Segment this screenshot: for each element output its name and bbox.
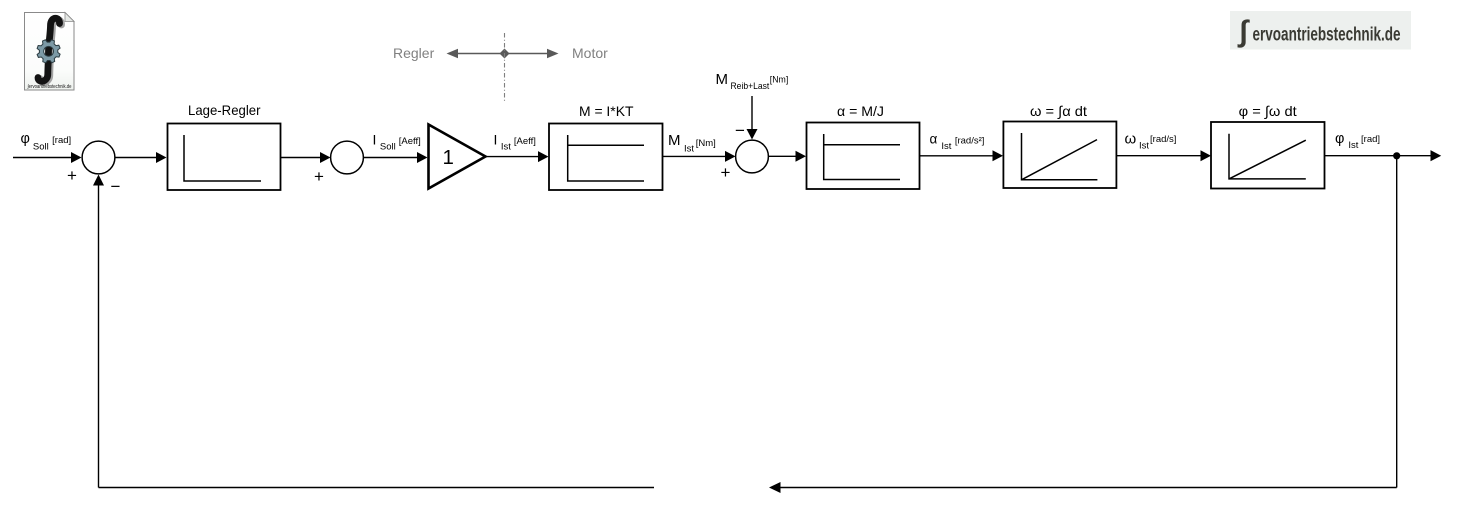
feedback wire bottom right with arrowhead (779, 487, 1397, 489)
svg-text:1: 1 (443, 146, 454, 169)
arrowhead into sum1 (71, 152, 82, 163)
wire omega block to phi block (1116, 155, 1201, 157)
svg-text:M = I*KT: M = I*KT (579, 103, 634, 119)
arrowhead into Lage-Regler (156, 152, 167, 163)
block Lage-Regler (168, 102, 281, 190)
block omega integrator (1003, 103, 1116, 188)
feedback wire bottom left segment (99, 487, 655, 489)
svg-text:α = M/J: α = M/J (837, 103, 884, 119)
node junction dot (1393, 152, 1400, 159)
svg-text:Motor: Motor (572, 45, 608, 61)
arrowhead into omega block (993, 150, 1004, 161)
arrowhead into S3 (725, 151, 736, 162)
brand box top-right (1230, 11, 1411, 50)
arrowhead feedback left (769, 482, 781, 493)
logo integral glyph (38, 18, 60, 81)
output arrowhead (1431, 150, 1442, 161)
svg-text:−: − (111, 177, 121, 196)
summing junction S1 (82, 141, 115, 174)
summing junction S2 (331, 141, 364, 174)
wire M Reib+Last down into S3 (751, 96, 753, 131)
arrowhead into S2 (320, 152, 331, 163)
summing junction S3 (736, 140, 769, 173)
wire S2 to gain triangle (364, 157, 419, 159)
svg-text:+: + (721, 163, 731, 182)
wire alpha block to omega block (920, 155, 994, 157)
block alpha = M/J (807, 103, 920, 189)
svg-text:+: + (67, 166, 77, 185)
block phi integrator (1211, 103, 1325, 189)
Regler-Motor double arrow (447, 49, 559, 59)
arrowhead into M=I*KT (538, 151, 549, 162)
wire M=I*KT to S3 (663, 155, 727, 157)
gain triangle value 1 (429, 125, 486, 189)
logo integral glyph shadow (40, 19, 62, 82)
svg-text:ω = ∫α dt: ω = ∫α dt (1030, 103, 1087, 119)
arrowhead down into S3 (747, 129, 758, 140)
svg-text:ervoantriebstechnik.de: ervoantriebstechnik.de (1253, 24, 1401, 46)
arrowhead into phi block (1201, 150, 1212, 161)
feedback wire up left (98, 184, 100, 488)
wire Lage-Regler to S2 (281, 157, 322, 159)
svg-text:Lage-Regler: Lage-Regler (188, 102, 261, 118)
Regler-Motor dashed separator (504, 33, 506, 102)
arrowhead up into S1 (93, 175, 104, 186)
wire S3 to alpha block (769, 155, 798, 157)
arrowhead into alpha block (796, 151, 807, 162)
wire gain to M=I*KT (486, 156, 540, 158)
wire input to sum1 (13, 157, 73, 159)
arrowhead into gain (417, 152, 428, 163)
svg-text:φ = ∫ω dt: φ = ∫ω dt (1239, 103, 1297, 119)
svg-text:+: + (314, 167, 324, 186)
block M = I*KT (549, 103, 663, 190)
wire S1 to Lage-Regler (115, 157, 157, 159)
svg-text:Regler: Regler (393, 45, 435, 61)
feedback wire down right (1396, 156, 1398, 488)
logo document shape top-left (25, 13, 75, 91)
wire phi block to output (1325, 155, 1432, 157)
svg-text:∫ervoantriebstechnik.de: ∫ervoantriebstechnik.de (27, 84, 72, 90)
svg-text:−: − (735, 121, 745, 140)
logo gear (37, 40, 60, 63)
